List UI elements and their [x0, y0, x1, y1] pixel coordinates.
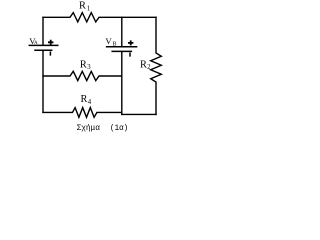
svg-text:2: 2 — [147, 64, 151, 71]
svg-text:V: V — [105, 36, 112, 46]
svg-text:B: B — [113, 41, 117, 47]
svg-text:3: 3 — [87, 64, 91, 71]
svg-text:1: 1 — [87, 5, 90, 12]
svg-text:4: 4 — [88, 99, 92, 106]
svg-text:A: A — [34, 41, 38, 46]
svg-text:R: R — [79, 0, 86, 11]
svg-text:Σχήμα: Σχήμα — [77, 125, 101, 133]
svg-text:R: R — [140, 60, 147, 71]
svg-text:(1α): (1α) — [110, 125, 128, 133]
svg-text:R: R — [80, 59, 87, 70]
svg-text:R: R — [81, 94, 88, 105]
